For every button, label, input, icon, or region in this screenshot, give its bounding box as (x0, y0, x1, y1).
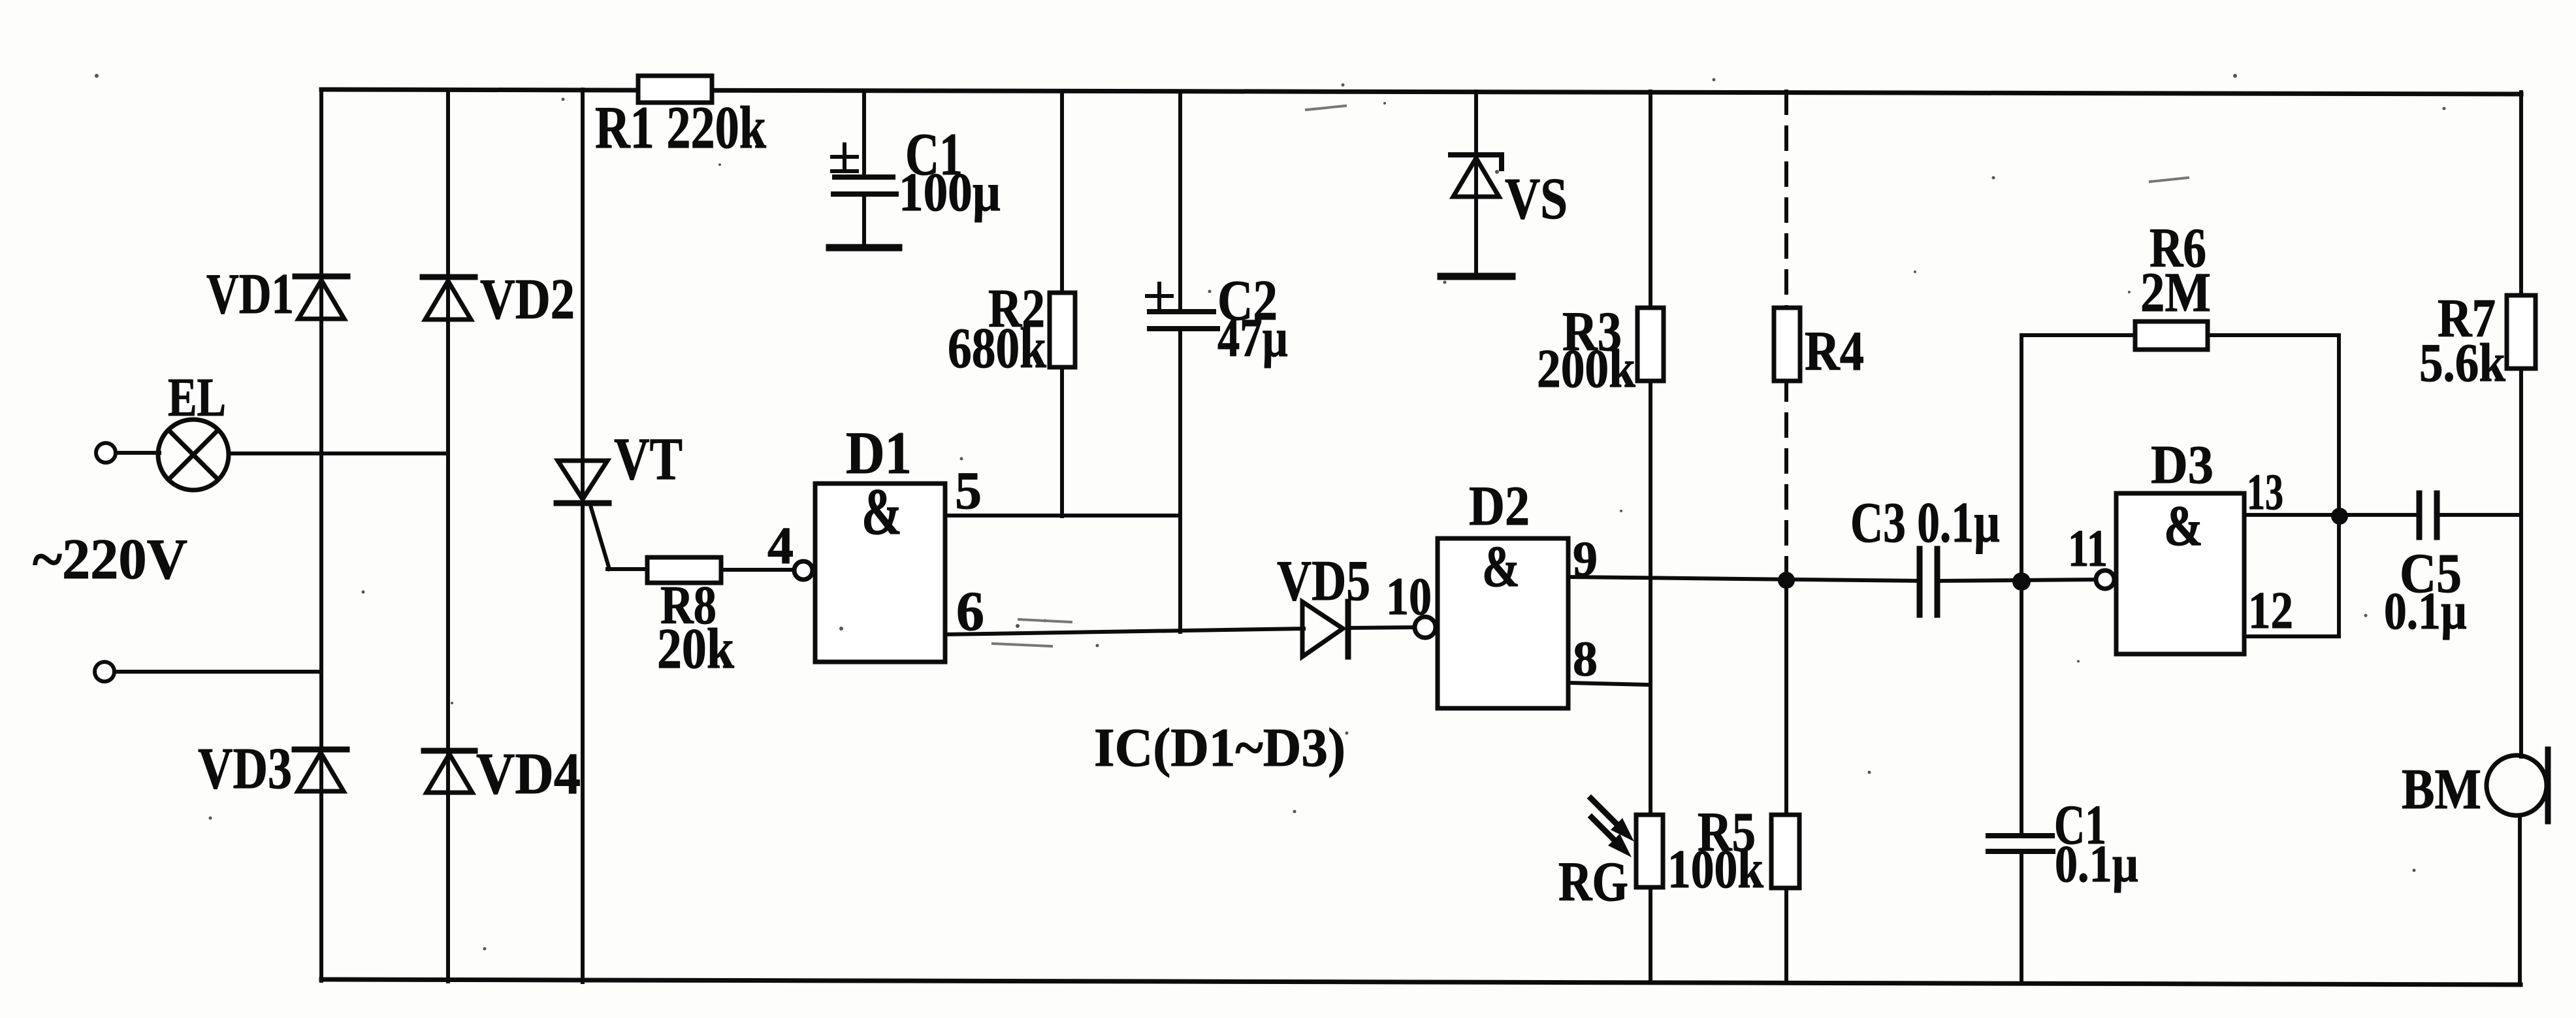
svg-text:VD3: VD3 (198, 736, 292, 801)
svg-text:&: & (2164, 495, 2203, 558)
wire C1b column upper (2020, 582, 2023, 836)
wire VT column (581, 90, 585, 982)
label R4 (1805, 320, 1864, 382)
label RG (1558, 850, 1628, 913)
svg-text:100µ: 100µ (899, 162, 1001, 223)
label 100u (899, 162, 1001, 223)
capacitor C5 plates (2419, 493, 2437, 537)
svg-text:680k: 680k (948, 317, 1046, 380)
svg-text:200k: 200k (1537, 338, 1635, 399)
wire C1 lower stub (862, 194, 866, 248)
diode VD1 (295, 276, 347, 319)
svg-text:VS: VS (1505, 167, 1568, 231)
svg-text:9: 9 (1573, 532, 1598, 587)
svg-text:D2: D2 (1469, 474, 1530, 537)
pin 11 (2068, 520, 2108, 578)
gate D2 pin10 bubble (1415, 617, 1436, 638)
zener VS (1451, 155, 1502, 197)
diode VD3 (295, 749, 347, 791)
svg-text:C3 0.1µ: C3 0.1µ (1850, 491, 2000, 555)
amp D2 (1482, 534, 1520, 599)
svg-text:D3: D3 (2151, 435, 2214, 495)
label R2 (988, 278, 1045, 339)
wire C1 column (862, 91, 866, 177)
resistor R4 (1774, 308, 1800, 381)
label C5 0.1u (2384, 583, 2467, 640)
resistor R1 (638, 76, 712, 103)
wire R4 column dashed lower (1784, 378, 1788, 574)
resistor R7 (2507, 295, 2536, 369)
gate D2 box (1438, 538, 1568, 708)
label R8 (660, 575, 716, 636)
label 220V (33, 528, 187, 591)
svg-text:&: & (861, 475, 902, 549)
diode VD5 (1302, 602, 1348, 657)
label VT (614, 425, 683, 492)
label VD1 (206, 263, 294, 326)
wire AC terminal 1 to lamp (116, 451, 159, 455)
lamp EL (158, 419, 229, 490)
wire R6 right arm pin12 riser (2337, 335, 2341, 636)
light arrow 1 (RG) (1591, 798, 1634, 842)
label D2 (1469, 474, 1530, 537)
label 680k (948, 317, 1046, 380)
svg-text:0.1µ: 0.1µ (2384, 583, 2467, 640)
svg-text:10: 10 (1386, 566, 1432, 626)
pin 6 (956, 580, 984, 642)
label IC(D1~D3) (1094, 717, 1345, 778)
svg-text:EL: EL (168, 367, 226, 428)
label C5 (2400, 542, 2462, 604)
diode VD2 (423, 277, 475, 320)
wire R2 column lower (1060, 365, 1064, 516)
wire D2 pin 9 to C3 (1568, 577, 1920, 581)
label 20k (657, 617, 734, 681)
label R6 (2149, 216, 2206, 279)
wire VS column (1474, 91, 1478, 276)
wire top supply rail (321, 90, 2521, 94)
svg-text:11: 11 (2068, 520, 2108, 578)
label R5 (1698, 800, 1756, 863)
scan speckles (95, 74, 2446, 951)
pin 13 (2247, 463, 2283, 520)
pin 10 (1386, 566, 1432, 626)
svg-text:100k: 100k (1667, 839, 1763, 900)
wire right border middle (2519, 367, 2523, 757)
label BM (2402, 758, 2481, 821)
resistor R5 (1771, 815, 1799, 888)
svg-text:VD1: VD1 (206, 263, 294, 326)
gate D1 box (815, 484, 945, 662)
amp D3 (2164, 495, 2203, 558)
terminal 2 (95, 662, 114, 681)
wire D1 pin 5 (945, 514, 1180, 517)
resistor R2 (1050, 293, 1075, 367)
wire D1 pin 6 to VD5 (945, 629, 1304, 634)
junction node R4-R5 (1778, 572, 1795, 589)
svg-text:~220V: ~220V (33, 528, 187, 591)
light arrow 2 (RG) (1592, 817, 1632, 857)
wire bottom rail (321, 979, 2520, 985)
wire D3 pin 12 (2244, 634, 2339, 638)
label C1 (905, 121, 963, 188)
capacitor C2 plates (1150, 312, 1217, 329)
wire R6 top left (2021, 333, 2135, 337)
wire C2 column lower (1178, 329, 1182, 632)
svg-text:5.6k: 5.6k (2419, 333, 2505, 393)
svg-text:47µ: 47µ (1217, 308, 1288, 369)
label C2 (1217, 269, 1278, 333)
capacitor C1 plates (833, 177, 896, 194)
terminal 1 (96, 443, 116, 463)
svg-text:RG: RG (1558, 850, 1628, 913)
label C3 0.1u (1850, 491, 2000, 555)
resistor R6 (2135, 321, 2208, 350)
wire R8 to pin 4 (718, 568, 796, 572)
svg-text:&: & (1482, 534, 1520, 599)
VS terminal bar (1441, 273, 1512, 280)
wire R3-RG column (1649, 378, 1652, 817)
svg-text:12: 12 (2248, 582, 2293, 640)
wire VD2-VD4 column (446, 90, 450, 981)
label VS (1505, 167, 1568, 231)
label D3 (2151, 435, 2214, 495)
label R7 (2438, 288, 2496, 349)
pin 8 (1573, 632, 1598, 687)
wire R2 column upper (1060, 91, 1064, 295)
photoresistor RG (1636, 815, 1663, 887)
label 2M (2140, 261, 2211, 323)
label D1 (846, 419, 912, 486)
wire C1b column lower (2020, 851, 2023, 982)
wire R3 column upper (1649, 91, 1652, 310)
wire RG column lower (1649, 885, 1652, 982)
wire R4-R5 node column (1784, 574, 1788, 817)
svg-text:6: 6 (956, 580, 984, 642)
svg-text:VD4: VD4 (476, 742, 581, 806)
label 200k (1537, 338, 1635, 399)
label VD3 (198, 736, 292, 801)
gate D1 pin4 bubble (794, 561, 813, 580)
svg-text:BM: BM (2402, 758, 2481, 821)
label VD4 (476, 742, 581, 806)
svg-text:8: 8 (1573, 632, 1598, 687)
junction node pin13 (2331, 508, 2348, 525)
C1 terminal bar (829, 244, 899, 252)
thyristor VT (556, 461, 609, 503)
wire R4 column dashed upper (1784, 91, 1788, 310)
label R1 220k (595, 94, 767, 161)
wire C3 to pin 11 (1937, 580, 2097, 581)
scan smudges (993, 106, 2188, 646)
svg-text:0.1µ: 0.1µ (2055, 836, 2138, 893)
pin 4 (767, 517, 794, 575)
svg-text:VT: VT (614, 425, 683, 492)
svg-text:VD2: VD2 (480, 268, 575, 331)
wire VT gate diagonal (591, 508, 609, 569)
amp D1 (861, 475, 902, 549)
label 5.6k (2419, 333, 2505, 393)
wire D3 pin 13 to C5 (2244, 513, 2419, 517)
svg-text:R4: R4 (1805, 320, 1864, 382)
svg-text:13: 13 (2247, 463, 2283, 520)
wire AC terminal 2 to bridge (114, 670, 321, 674)
capacitor C3 plates (1920, 549, 1937, 615)
wire left border VD1-VD3 column (319, 90, 323, 981)
label C1b (2054, 793, 2106, 856)
pin 12 (2248, 582, 2293, 640)
svg-text:IC(D1~D3): IC(D1~D3) (1094, 717, 1345, 778)
wire R5 column lower (1784, 887, 1788, 982)
svg-text:VD5: VD5 (1277, 550, 1370, 613)
C2 polarity mark (1147, 284, 1172, 308)
svg-text:5: 5 (955, 461, 982, 520)
wire R6 left arm (2020, 335, 2023, 582)
wire VD5 to pin 10 (1348, 627, 1416, 628)
label 47u (1217, 308, 1288, 369)
diode VD4 (424, 751, 475, 793)
resistor R3 (1637, 308, 1664, 381)
wire C2 column upper (1178, 91, 1182, 312)
wire right border upper (2519, 92, 2523, 297)
label VD5 (1277, 550, 1370, 613)
pin 9 (1573, 532, 1598, 587)
pin 5 (955, 461, 982, 520)
C1 polarity mark (832, 144, 857, 171)
wire right border lower (2518, 815, 2522, 985)
wire R6 top right (2208, 333, 2339, 337)
buzzer BM (2487, 749, 2548, 821)
gate D3 pin11 bubble (2096, 570, 2114, 589)
junction node C3-R6 (2012, 572, 2031, 591)
capacitor C1b plates (1988, 836, 2053, 851)
wire C5 to right border (2437, 513, 2521, 517)
label C1b 0.1u (2055, 836, 2138, 893)
resistor R8 (647, 557, 721, 583)
wire gate to R8 (607, 567, 650, 571)
label VD2 (480, 268, 575, 331)
svg-text:4: 4 (767, 517, 794, 575)
gate D3 box (2116, 493, 2244, 654)
label R3 (1562, 300, 1622, 363)
svg-text:R1 220k: R1 220k (595, 94, 767, 161)
label 100k (1667, 839, 1763, 900)
wire D2 pin 8 (1568, 683, 1650, 685)
label EL (168, 367, 226, 428)
svg-text:20k: 20k (657, 617, 734, 681)
wire lamp to bridge (229, 452, 448, 455)
svg-text:2M: 2M (2140, 261, 2211, 323)
